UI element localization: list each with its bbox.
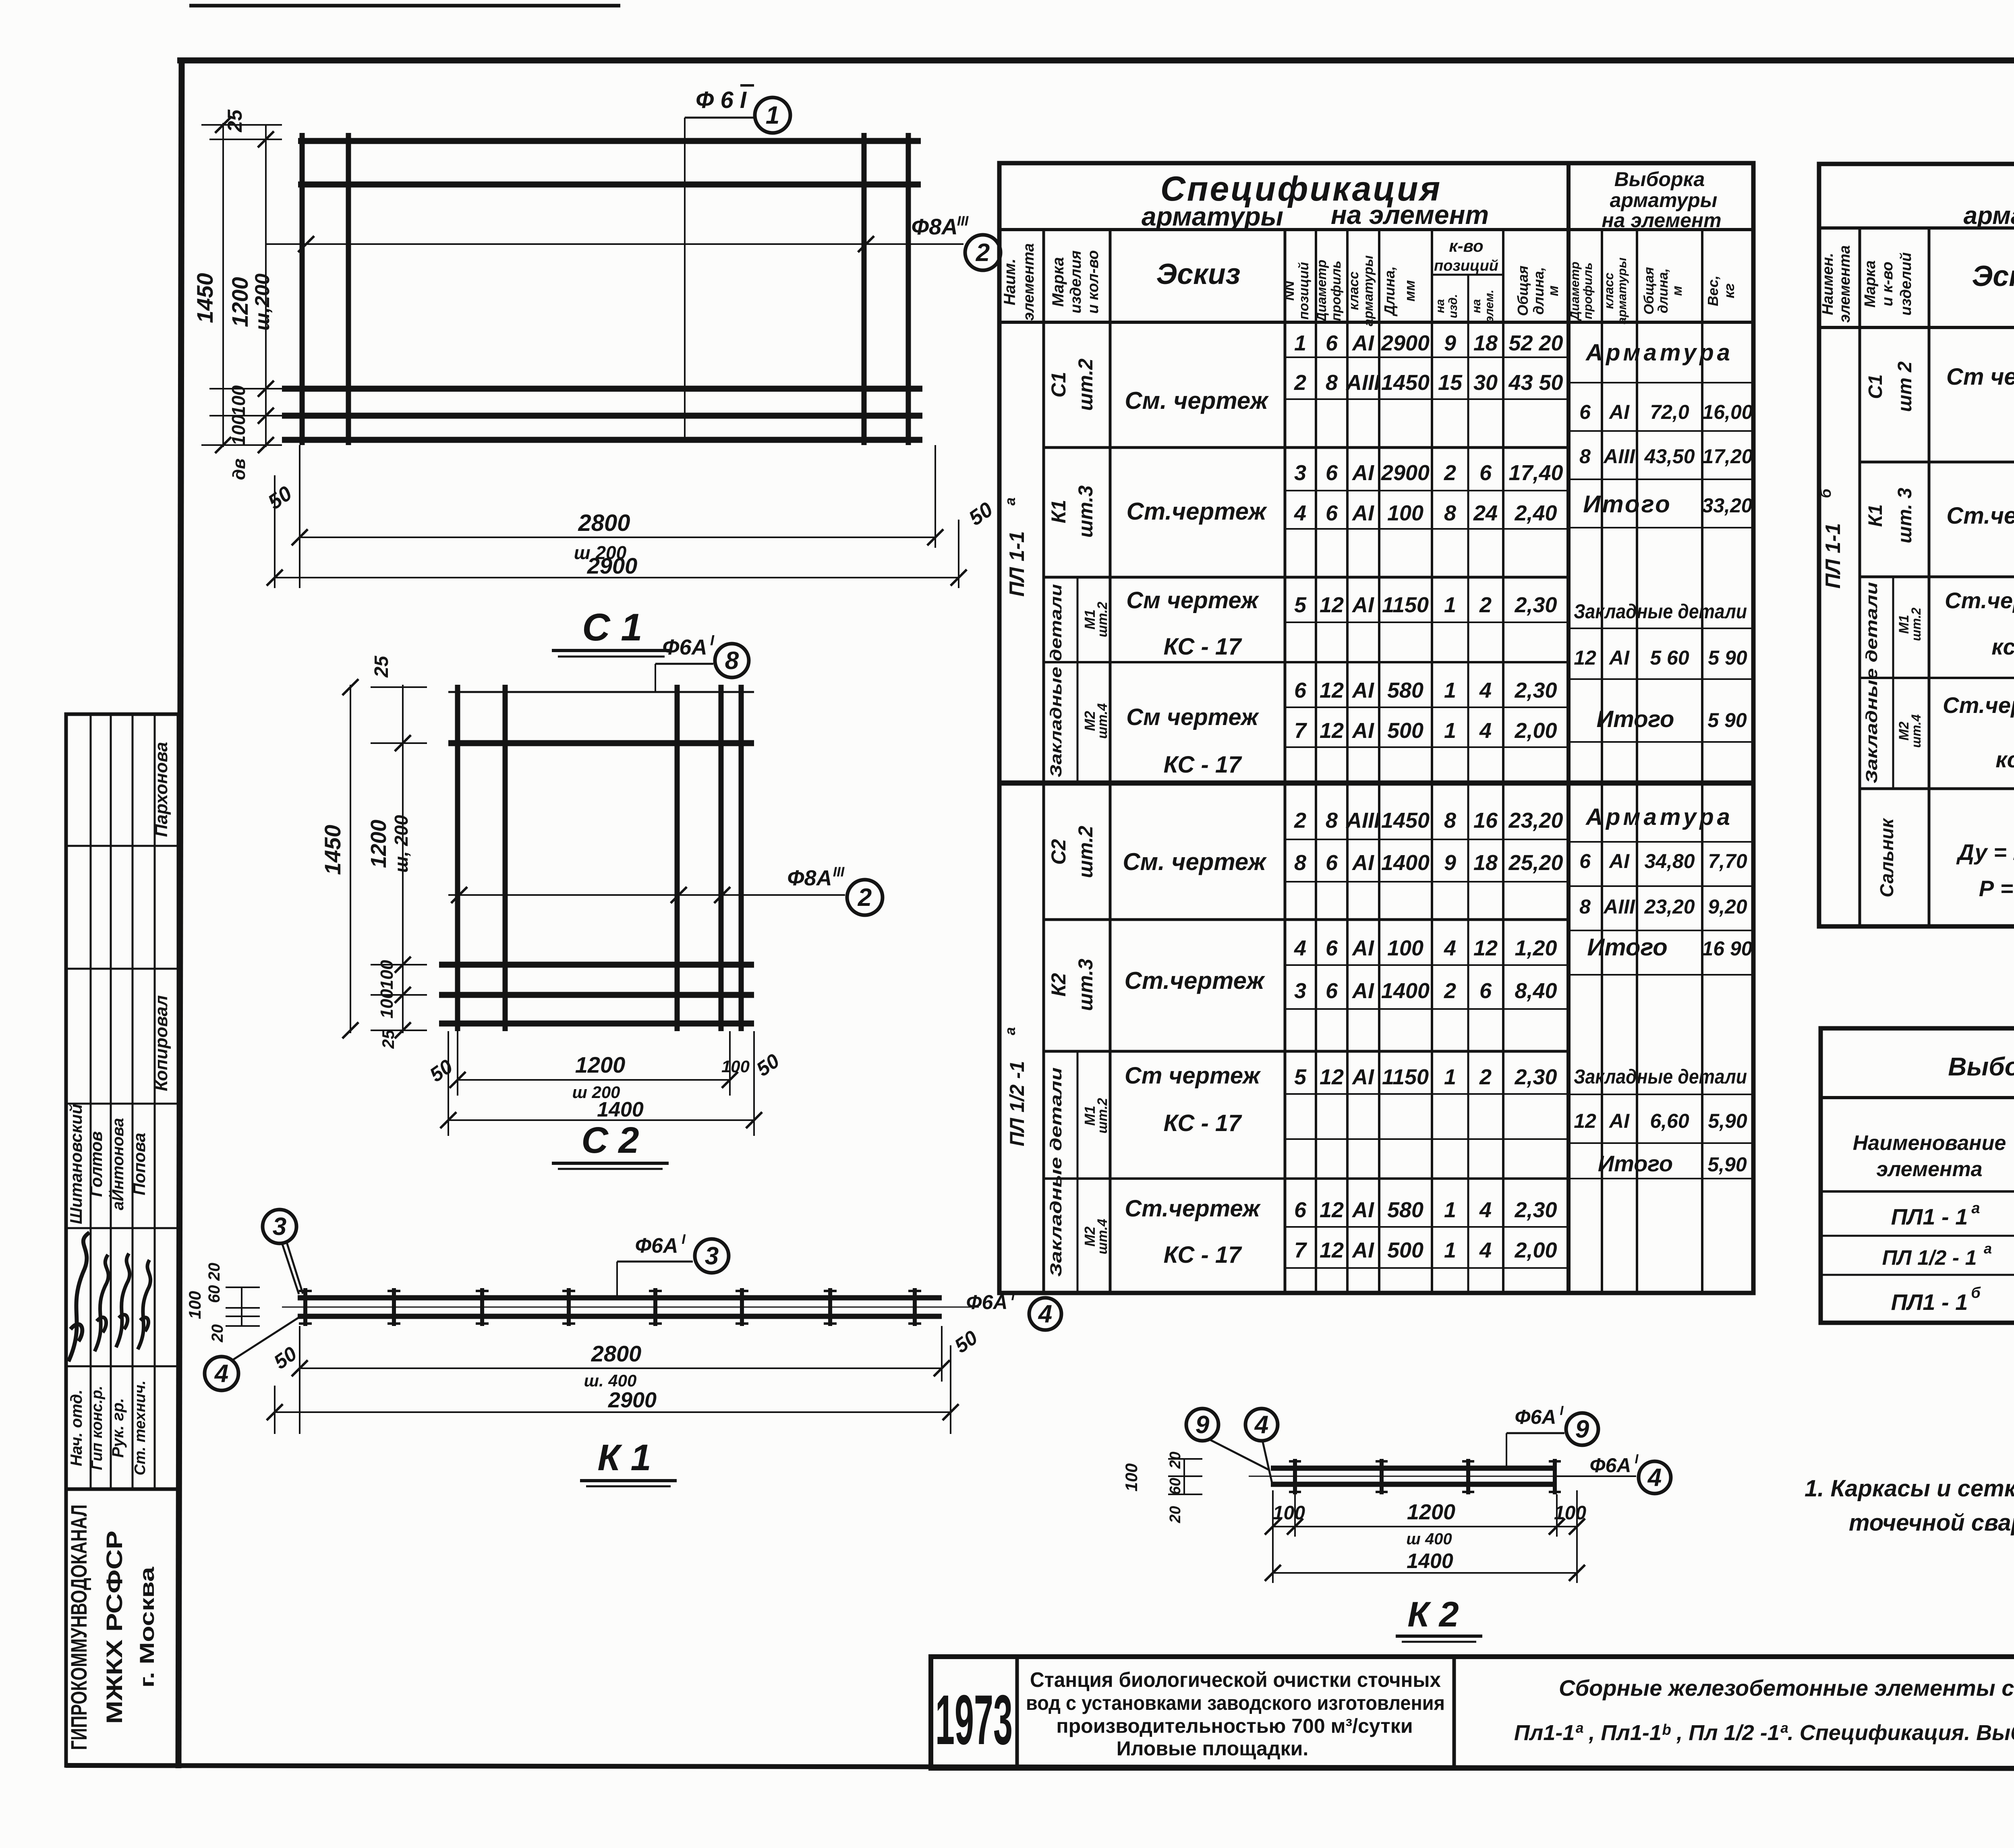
svg-text:Марка: Марка — [1049, 257, 1067, 307]
svg-text:АI: АI — [1351, 461, 1374, 485]
svg-text:2: 2 — [1294, 371, 1306, 395]
svg-text:16: 16 — [1473, 808, 1498, 833]
svg-text:КС - 17: КС - 17 — [1164, 1242, 1243, 1268]
svg-text:Закладные детали: Закладные детали — [1047, 1067, 1065, 1277]
svg-text:4: 4 — [1647, 1464, 1662, 1492]
K1 end callout circle 4 — [205, 1357, 238, 1390]
svg-text:изд.: изд. — [1446, 294, 1460, 318]
mesh C1 horizontal bars — [298, 138, 921, 144]
svg-text:Ст.чертеж: Ст.чертеж — [1945, 588, 2014, 613]
svg-text:позиций: позиций — [1296, 262, 1312, 319]
svg-text:1200: 1200 — [367, 820, 391, 868]
svg-text:8: 8 — [1444, 501, 1456, 525]
svg-text:АI: АI — [1351, 331, 1374, 355]
mesh C1 bar pos1 leader line — [684, 118, 686, 440]
svg-text:6: 6 — [1326, 331, 1338, 355]
svg-text:См чертеж: См чертеж — [1126, 587, 1260, 613]
svg-text:Голтов: Голтов — [87, 1131, 106, 1197]
svg-text:20: 20 — [1167, 1452, 1184, 1469]
svg-text:арматуры: арматуры — [1964, 202, 2014, 230]
svg-text:С 1: С 1 — [582, 606, 642, 649]
svg-text:4: 4 — [214, 1360, 228, 1388]
svg-text:I: I — [710, 632, 715, 648]
svg-text:2800: 2800 — [591, 1341, 642, 1366]
svg-text:9: 9 — [1575, 1415, 1589, 1443]
svg-text:Вес,: Вес, — [1705, 276, 1721, 306]
svg-text:АIII: АIII — [1603, 445, 1635, 468]
svg-text:2,30: 2,30 — [1514, 1198, 1557, 1222]
svg-text:АI: АI — [1351, 719, 1374, 743]
svg-text:7,70: 7,70 — [1708, 850, 1747, 872]
callout circle 2 — [965, 235, 1001, 270]
svg-text:Ст чертеж: Ст чертеж — [1946, 364, 2014, 390]
C1 bottom dim 2800 — [299, 445, 300, 588]
K2 left mini dims — [1183, 1459, 1185, 1494]
svg-text:АI: АI — [1608, 1110, 1630, 1132]
svg-text:2,00: 2,00 — [1514, 1238, 1557, 1262]
svg-text:Р = 200: Р = 200 — [1979, 876, 2014, 901]
svg-text:КС - 17: КС - 17 — [1164, 1110, 1243, 1136]
svg-text:1150: 1150 — [1382, 593, 1429, 617]
svg-text:АI: АI — [1351, 678, 1374, 702]
svg-text:1. Каркасы и сетки изготов: 1. Каркасы и сетки изготовляются контакт… — [1805, 1475, 2014, 1502]
svg-text:1450: 1450 — [192, 273, 218, 323]
svg-text:Закладные детали: Закладные детали — [1574, 1065, 1747, 1088]
svg-text:12: 12 — [1320, 719, 1344, 743]
svg-text:Ст.чертеж: Ст.чертеж — [1125, 1195, 1261, 1222]
svg-text:7: 7 — [1294, 1238, 1307, 1262]
svg-text:1400: 1400 — [1381, 851, 1430, 875]
svg-text:элемента: элемента — [1836, 245, 1853, 323]
svg-text:Диаметр: Диаметр — [1314, 260, 1329, 323]
spec table right : outer — [1819, 164, 2014, 926]
svg-text:III: III — [957, 213, 969, 229]
svg-text:Длина,: Длина, — [1381, 266, 1398, 317]
svg-text:6: 6 — [1326, 851, 1338, 875]
svg-text:С 2: С 2 — [581, 1120, 639, 1161]
svg-text:12: 12 — [1320, 1238, 1344, 1262]
svg-text:I: I — [1560, 1403, 1564, 1418]
svg-text:АI: АI — [1608, 646, 1630, 669]
svg-text:Пархонова: Пархонова — [151, 742, 171, 837]
svg-text:6: 6 — [1579, 850, 1591, 872]
svg-text:5 60: 5 60 — [1650, 646, 1689, 669]
svg-text:ПЛ 1/2 - 1: ПЛ 1/2 - 1 — [1882, 1246, 1977, 1270]
K2 left callout circle 4 — [1245, 1409, 1278, 1441]
svg-text:1: 1 — [1294, 331, 1306, 355]
K1 callout circle 3 mid — [695, 1239, 729, 1273]
svg-text:ПЛ 1-1: ПЛ 1-1 — [1821, 523, 1845, 589]
svg-text:60: 60 — [1167, 1478, 1184, 1495]
svg-text:К 1: К 1 — [597, 1437, 651, 1478]
svg-text:Ф8А: Ф8А — [911, 214, 957, 239]
svg-text:Ст чертеж: Ст чертеж — [1125, 1063, 1261, 1089]
svg-text:Копировал: Копировал — [151, 995, 171, 1091]
svg-text:шт.3: шт.3 — [1074, 959, 1097, 1011]
svg-text:Ду = 150;: Ду = 150; — [1956, 839, 2014, 865]
svg-text:12: 12 — [1320, 593, 1344, 617]
svg-text:Эскиз: Эскиз — [1156, 258, 1240, 290]
scan artifact top edge — [189, 4, 620, 8]
svg-text:Выборка: Выборка — [1614, 168, 1705, 191]
svg-text:б: б — [1817, 488, 1834, 498]
svg-text:ш 400: ш 400 — [1406, 1530, 1452, 1548]
svg-text:4: 4 — [1444, 936, 1456, 960]
svg-text:АIII: АIII — [1603, 895, 1635, 918]
svg-text:Иловые площадки.: Иловые площадки. — [1117, 1737, 1309, 1760]
svg-text:Ф8А: Ф8А — [787, 866, 832, 890]
svg-text:точечной сваркой.: точечной сваркой. — [1849, 1510, 2014, 1536]
svg-text:шт.3: шт.3 — [1074, 485, 1097, 538]
svg-text:К 2: К 2 — [1407, 1594, 1459, 1634]
svg-text:ш. 400: ш. 400 — [584, 1371, 637, 1390]
svg-text:К1: К1 — [1865, 504, 1886, 527]
svg-text:8: 8 — [725, 647, 739, 675]
svg-text:Ф6А: Ф6А — [662, 635, 707, 659]
svg-text:100: 100 — [377, 960, 397, 990]
svg-text:580: 580 — [1387, 678, 1423, 702]
svg-text:профиль: профиль — [1328, 261, 1343, 321]
svg-text:4: 4 — [1038, 1300, 1052, 1328]
svg-text:Закладные детали: Закладные детали — [1574, 600, 1747, 623]
svg-text:К1: К1 — [1047, 500, 1070, 524]
svg-text:43,50: 43,50 — [1644, 445, 1695, 468]
svg-text:100: 100 — [721, 1057, 750, 1076]
svg-text:25: 25 — [371, 655, 392, 678]
svg-text:ш,200: ш,200 — [251, 273, 274, 331]
svg-text:III: III — [833, 864, 845, 880]
svg-text:12: 12 — [1473, 936, 1498, 960]
svg-text:Диаметр: Диаметр — [1568, 261, 1582, 321]
svg-text:1200: 1200 — [1407, 1500, 1455, 1524]
border frame — [178, 60, 182, 1768]
svg-text:100: 100 — [377, 989, 397, 1019]
svg-text:8: 8 — [1444, 808, 1456, 833]
C2 callout circle 2 — [847, 880, 883, 915]
K1 left mini dims — [241, 1287, 242, 1326]
svg-text:4: 4 — [1294, 501, 1306, 525]
svg-text:Наимен.: Наимен. — [1819, 253, 1836, 315]
svg-text:5: 5 — [1294, 593, 1307, 617]
svg-text:33,20: 33,20 — [1702, 494, 1752, 517]
svg-text:2: 2 — [1444, 979, 1456, 1003]
svg-text:кг: кг — [1721, 283, 1737, 298]
svg-text:АI: АI — [1608, 401, 1630, 423]
C1 bottom dim 2900 — [274, 475, 276, 588]
svg-text:Общая: Общая — [1515, 265, 1531, 316]
svg-text:Шитановский: Шитановский — [66, 1104, 85, 1224]
svg-text:4: 4 — [1479, 1238, 1492, 1262]
svg-text:3: 3 — [273, 1213, 286, 1241]
svg-text:Арматура: Арматура — [1585, 340, 1733, 366]
title block outer — [931, 1657, 2014, 1768]
svg-text:4: 4 — [1294, 936, 1306, 960]
svg-text:1450: 1450 — [1381, 808, 1430, 833]
mesh C2 bar pos2 leader — [448, 894, 845, 896]
spec table mid : header band — [999, 228, 1753, 231]
svg-text:ПЛ 1/2 -1: ПЛ 1/2 -1 — [1006, 1061, 1028, 1146]
svg-text:1450: 1450 — [320, 825, 345, 875]
svg-text:К2: К2 — [1047, 973, 1070, 997]
svg-text:43 50: 43 50 — [1508, 371, 1563, 395]
K2 right callout circle 4 — [1639, 1461, 1671, 1494]
svg-text:Гип конс.р.: Гип конс.р. — [89, 1386, 106, 1470]
svg-text:2: 2 — [976, 239, 990, 267]
svg-text:г. Москва: г. Москва — [136, 1566, 158, 1688]
svg-text:С2: С2 — [1047, 839, 1070, 865]
svg-text:9: 9 — [1444, 851, 1456, 875]
C2 bottom dim 1400 — [448, 1031, 449, 1136]
svg-text:4: 4 — [1479, 719, 1492, 743]
svg-text:6: 6 — [1294, 1198, 1307, 1222]
K2 bottom dim 1400 — [1273, 1572, 1577, 1574]
stamp strip outer — [66, 714, 178, 1766]
svg-text:6: 6 — [1479, 461, 1492, 485]
spec table mid : right band lines — [1569, 382, 1753, 383]
svg-text:3: 3 — [1294, 461, 1306, 485]
svg-text:2: 2 — [1479, 593, 1492, 617]
svg-text:АI: АI — [1351, 936, 1374, 960]
svg-text:Ф6А: Ф6А — [635, 1234, 678, 1258]
svg-text:арматуры: арматуры — [1142, 201, 1283, 231]
svg-text:и кол-во: и кол-во — [1085, 250, 1102, 314]
svg-text:1973: 1973 — [935, 1681, 1013, 1759]
svg-text:С1: С1 — [1865, 374, 1886, 399]
K2 bottom dim 1200 — [1272, 1490, 1274, 1583]
svg-text:NN: NN — [1282, 280, 1297, 301]
svg-text:12: 12 — [1574, 1110, 1596, 1132]
svg-text:1400: 1400 — [1381, 979, 1430, 1003]
materials table outer — [1821, 1028, 2014, 1323]
svg-text:15: 15 — [1438, 371, 1463, 395]
svg-text:АI: АI — [1351, 593, 1374, 617]
K2 left callout circle 9 — [1186, 1409, 1218, 1441]
svg-text:1: 1 — [766, 102, 779, 129]
svg-text:60 20: 60 20 — [205, 1263, 223, 1303]
svg-text:Наим.: Наим. — [1001, 259, 1019, 305]
svg-text:Итого: Итого — [1598, 1151, 1673, 1176]
mesh C2 horizontal bars — [448, 691, 754, 693]
svg-text:8: 8 — [1294, 851, 1306, 875]
svg-text:2900: 2900 — [587, 553, 638, 578]
svg-text:Эскиз: Эскиз — [1972, 260, 2014, 292]
svg-text:9: 9 — [1196, 1411, 1210, 1439]
C2 left dim 1450 — [350, 685, 351, 1033]
svg-text:9: 9 — [1444, 331, 1456, 355]
svg-text:5 90: 5 90 — [1708, 646, 1747, 669]
svg-text:профиль: профиль — [1581, 263, 1595, 319]
svg-text:9,20: 9,20 — [1708, 895, 1747, 918]
C1 left dim line 1450 — [222, 123, 224, 447]
svg-text:Общая: Общая — [1641, 267, 1657, 315]
svg-text:24: 24 — [1473, 501, 1498, 525]
spec right section lines — [1860, 461, 2014, 464]
svg-text:100: 100 — [1387, 501, 1423, 525]
K2 right callout circle 9 — [1566, 1413, 1598, 1445]
svg-text:2,30: 2,30 — [1514, 593, 1557, 617]
svg-text:класс: класс — [1602, 273, 1616, 309]
svg-text:1: 1 — [1444, 719, 1456, 743]
svg-text:Итого: Итого — [1587, 934, 1668, 961]
K2 right callout 9 leader — [1506, 1433, 1507, 1468]
svg-text:8: 8 — [1579, 445, 1591, 468]
svg-text:на элемент: на элемент — [1602, 209, 1721, 232]
svg-text:12: 12 — [1320, 1065, 1344, 1089]
svg-text:12: 12 — [1320, 678, 1344, 702]
svg-text:1400: 1400 — [1407, 1550, 1453, 1573]
svg-text:100: 100 — [228, 385, 249, 416]
materials rows — [1821, 1235, 2014, 1237]
svg-text:500: 500 — [1387, 1238, 1423, 1262]
svg-text:1: 1 — [1444, 1238, 1456, 1262]
svg-text:Итого: Итого — [1597, 706, 1674, 732]
svg-text:С1: С1 — [1047, 372, 1070, 398]
K1 bottom dim 2800 — [299, 1326, 300, 1434]
svg-text:Ф6А: Ф6А — [1515, 1406, 1556, 1428]
svg-text:элем.: элем. — [1483, 290, 1496, 323]
svg-text:ПЛ1 - 1: ПЛ1 - 1 — [1891, 1204, 1968, 1229]
svg-text:2,30: 2,30 — [1514, 678, 1557, 702]
svg-text:6: 6 — [1579, 401, 1591, 423]
svg-text:шт.2: шт.2 — [1074, 358, 1097, 411]
callout circle 1 — [755, 97, 790, 133]
svg-text:6: 6 — [1326, 979, 1338, 1003]
svg-text:Ст.чертеж: Ст.чертеж — [1946, 503, 2014, 529]
svg-text:Марка: Марка — [1862, 260, 1879, 307]
stamp signatures — [68, 1233, 89, 1361]
svg-text:элемента: элемента — [1020, 243, 1037, 321]
bar K2 chords — [1271, 1466, 1553, 1471]
svg-text:Ст.чертеж: Ст.чертеж — [1127, 498, 1268, 525]
C2 callout circle 8 — [715, 644, 749, 677]
svg-text:7: 7 — [1294, 719, 1307, 743]
svg-text:Пл1-1ª , Пл1-1ᵇ , Пл 1/2 -1ª.: Пл1-1ª , Пл1-1ᵇ , Пл 1/2 -1ª. Спецификац… — [1514, 1721, 2014, 1745]
svg-text:30: 30 — [1473, 371, 1498, 395]
svg-text:изделия: изделия — [1067, 251, 1084, 313]
svg-text:а: а — [1002, 497, 1018, 506]
svg-text:кс - 17: кс - 17 — [1995, 747, 2014, 772]
svg-text:6: 6 — [1326, 936, 1338, 960]
svg-text:АI: АI — [1351, 1238, 1374, 1262]
svg-text:1200: 1200 — [575, 1052, 626, 1077]
svg-text:Нач. отд.: Нач. отд. — [68, 1390, 85, 1466]
K1 bottom dim 2900 — [274, 1386, 276, 1434]
K1 right callout circle 4 — [1029, 1298, 1061, 1330]
stamp strip row dividers — [66, 845, 178, 847]
svg-text:АI: АI — [1351, 1065, 1374, 1089]
C2 bottom dim 1200 — [457, 1031, 458, 1096]
mesh C2 vertical bars — [455, 685, 460, 1031]
svg-text:5: 5 — [1294, 1065, 1307, 1089]
C1 left dim line 1200 — [265, 125, 267, 447]
svg-text:шт.4: шт.4 — [1909, 714, 1923, 748]
svg-text:23,20: 23,20 — [1644, 895, 1695, 918]
svg-text:100: 100 — [1122, 1463, 1141, 1492]
svg-text:25: 25 — [379, 1030, 398, 1049]
C2 callout 8 leader — [655, 664, 656, 692]
svg-text:Сборные железобетонные элем: Сборные железобетонные элементы стен. — [1559, 1675, 2014, 1701]
K1 end callout circle 3 — [263, 1210, 296, 1243]
svg-text:12: 12 — [1574, 646, 1596, 669]
spec table mid : column lines — [1042, 230, 1045, 1293]
svg-text:17,20: 17,20 — [1702, 445, 1753, 468]
svg-text:Закладные детали: Закладные детали — [1863, 582, 1881, 783]
svg-text:6: 6 — [1294, 678, 1307, 702]
stamp strip long lines — [90, 714, 92, 1489]
svg-text:1: 1 — [1444, 1198, 1456, 1222]
svg-text:17,40: 17,40 — [1508, 461, 1563, 485]
svg-text:100: 100 — [228, 414, 249, 445]
svg-text:100: 100 — [185, 1291, 204, 1319]
svg-text:мм: мм — [1401, 280, 1418, 301]
svg-text:а: а — [1984, 1240, 1992, 1257]
svg-text:16,00: 16,00 — [1702, 401, 1753, 423]
svg-text:2,40: 2,40 — [1514, 501, 1557, 525]
svg-text:ПЛ 1-1: ПЛ 1-1 — [1005, 531, 1029, 597]
svg-text:на: на — [1434, 299, 1447, 313]
svg-text:4: 4 — [1479, 1198, 1492, 1222]
svg-text:Закладные детали: Закладные детали — [1047, 584, 1065, 777]
svg-text:100: 100 — [1554, 1502, 1586, 1524]
spec table right : header band — [1819, 226, 2014, 230]
svg-text:шт.4: шт.4 — [1095, 703, 1110, 739]
svg-text:Ст.чертеж: Ст.чертеж — [1125, 967, 1266, 994]
mid label zakladnye 1 — [1077, 577, 1079, 783]
svg-text:класс: класс — [1346, 271, 1361, 310]
svg-text:АI: АI — [1351, 979, 1374, 1003]
svg-text:72,0: 72,0 — [1650, 401, 1689, 423]
svg-text:4: 4 — [1479, 678, 1492, 702]
svg-text:шт.2: шт.2 — [1095, 1098, 1110, 1133]
spec table mid : thin row lines left — [1285, 356, 1569, 358]
bar K2 cross ticks — [1293, 1459, 1297, 1494]
svg-text:на: на — [1470, 299, 1483, 313]
svg-text:б: б — [1971, 1284, 1981, 1301]
svg-text:1: 1 — [1444, 678, 1456, 702]
svg-text:3: 3 — [1294, 979, 1306, 1003]
svg-text:Станция биологической очистк: Станция биологической очистки сточных — [1030, 1668, 1441, 1692]
svg-text:АIII: АIII — [1345, 808, 1380, 833]
svg-text:АI: АI — [1351, 501, 1374, 525]
svg-text:8: 8 — [1326, 808, 1338, 833]
spec table mid : section lines — [1044, 446, 1569, 449]
svg-text:6: 6 — [1326, 501, 1338, 525]
svg-text:Арматура: Арматура — [1585, 804, 1733, 830]
svg-text:2: 2 — [1444, 461, 1456, 485]
svg-text:20: 20 — [209, 1324, 226, 1343]
svg-text:ГИПРОКОММУНВОДОКАНАЛ: ГИПРОКОММУНВОДОКАНАЛ — [66, 1504, 91, 1750]
svg-text:16 90: 16 90 — [1702, 937, 1752, 960]
K1 callout 3 leader — [616, 1262, 618, 1298]
svg-text:Ф6А: Ф6А — [1590, 1454, 1631, 1477]
svg-text:АI: АI — [1608, 850, 1630, 872]
mesh C1 bar pos2 leader line — [266, 243, 963, 245]
svg-text:АI: АI — [1351, 1198, 1374, 1222]
svg-text:ПЛ1 - 1: ПЛ1 - 1 — [1891, 1289, 1968, 1315]
svg-text:Рук. гр.: Рук. гр. — [109, 1398, 127, 1458]
svg-text:а: а — [1971, 1200, 1980, 1217]
svg-text:4: 4 — [1254, 1411, 1268, 1439]
svg-text:длина,: длина, — [1656, 268, 1671, 313]
svg-text:кс - 17: кс - 17 — [1991, 634, 2014, 659]
svg-text:2900: 2900 — [1381, 461, 1430, 485]
spec right column lines — [1859, 228, 1861, 926]
svg-text:АI: АI — [1351, 851, 1374, 875]
svg-text:25: 25 — [224, 109, 246, 133]
svg-text:2: 2 — [1294, 808, 1306, 833]
svg-text:1150: 1150 — [1382, 1065, 1429, 1089]
svg-text:2,30: 2,30 — [1514, 1065, 1557, 1089]
